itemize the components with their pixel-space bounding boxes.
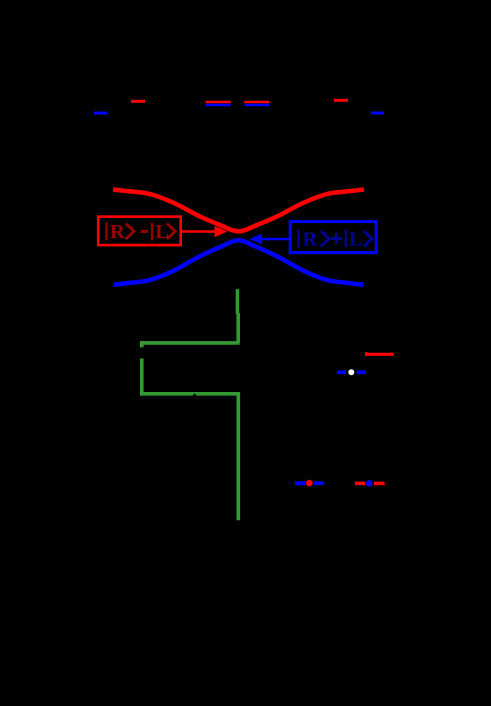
level red middle-right xyxy=(244,101,269,104)
red arrow to crossing xyxy=(181,230,215,233)
red state box xyxy=(98,217,181,246)
level blue left-well top xyxy=(94,112,107,115)
green pulse: top vertical upper segment xyxy=(236,289,239,314)
level blue middle-right xyxy=(245,104,269,107)
level red dashed lower-right xyxy=(355,482,365,486)
blue box label |R>+|L> xyxy=(298,229,372,251)
green pulse: bottom vertical xyxy=(237,392,241,520)
green pulse: top horizontal xyxy=(140,341,239,345)
level blue right-well top xyxy=(371,112,384,115)
level red upper-right diagram xyxy=(365,353,394,356)
green pulse: top vertical lower segment xyxy=(236,313,240,343)
blue state box xyxy=(290,222,376,253)
level red left-well top xyxy=(131,100,145,103)
green pulse: left stub xyxy=(140,341,144,347)
level red right-well top xyxy=(334,99,348,102)
svg-text:L: L xyxy=(349,229,363,251)
blue arrow to crossing xyxy=(261,238,290,241)
blue lower branch curve xyxy=(114,240,364,284)
level blue dashed with hole xyxy=(337,370,346,374)
red box label |R>-|L> xyxy=(107,221,176,243)
blue dot lower-right xyxy=(366,480,373,487)
red dot lower-left xyxy=(306,480,313,487)
level blue middle-left xyxy=(206,104,230,107)
hole (white dot) xyxy=(348,369,354,375)
green pulse: bottom horizontal xyxy=(140,392,240,396)
green pulse: left vertical xyxy=(140,359,144,396)
level red middle-left xyxy=(206,101,231,104)
svg-text:R: R xyxy=(303,229,318,251)
black arrowhead on pulse (invisible ink notch) xyxy=(192,393,196,396)
red upper branch curve xyxy=(113,190,364,232)
level blue dashed lower-left xyxy=(295,481,306,485)
svg-text:R: R xyxy=(110,221,125,243)
